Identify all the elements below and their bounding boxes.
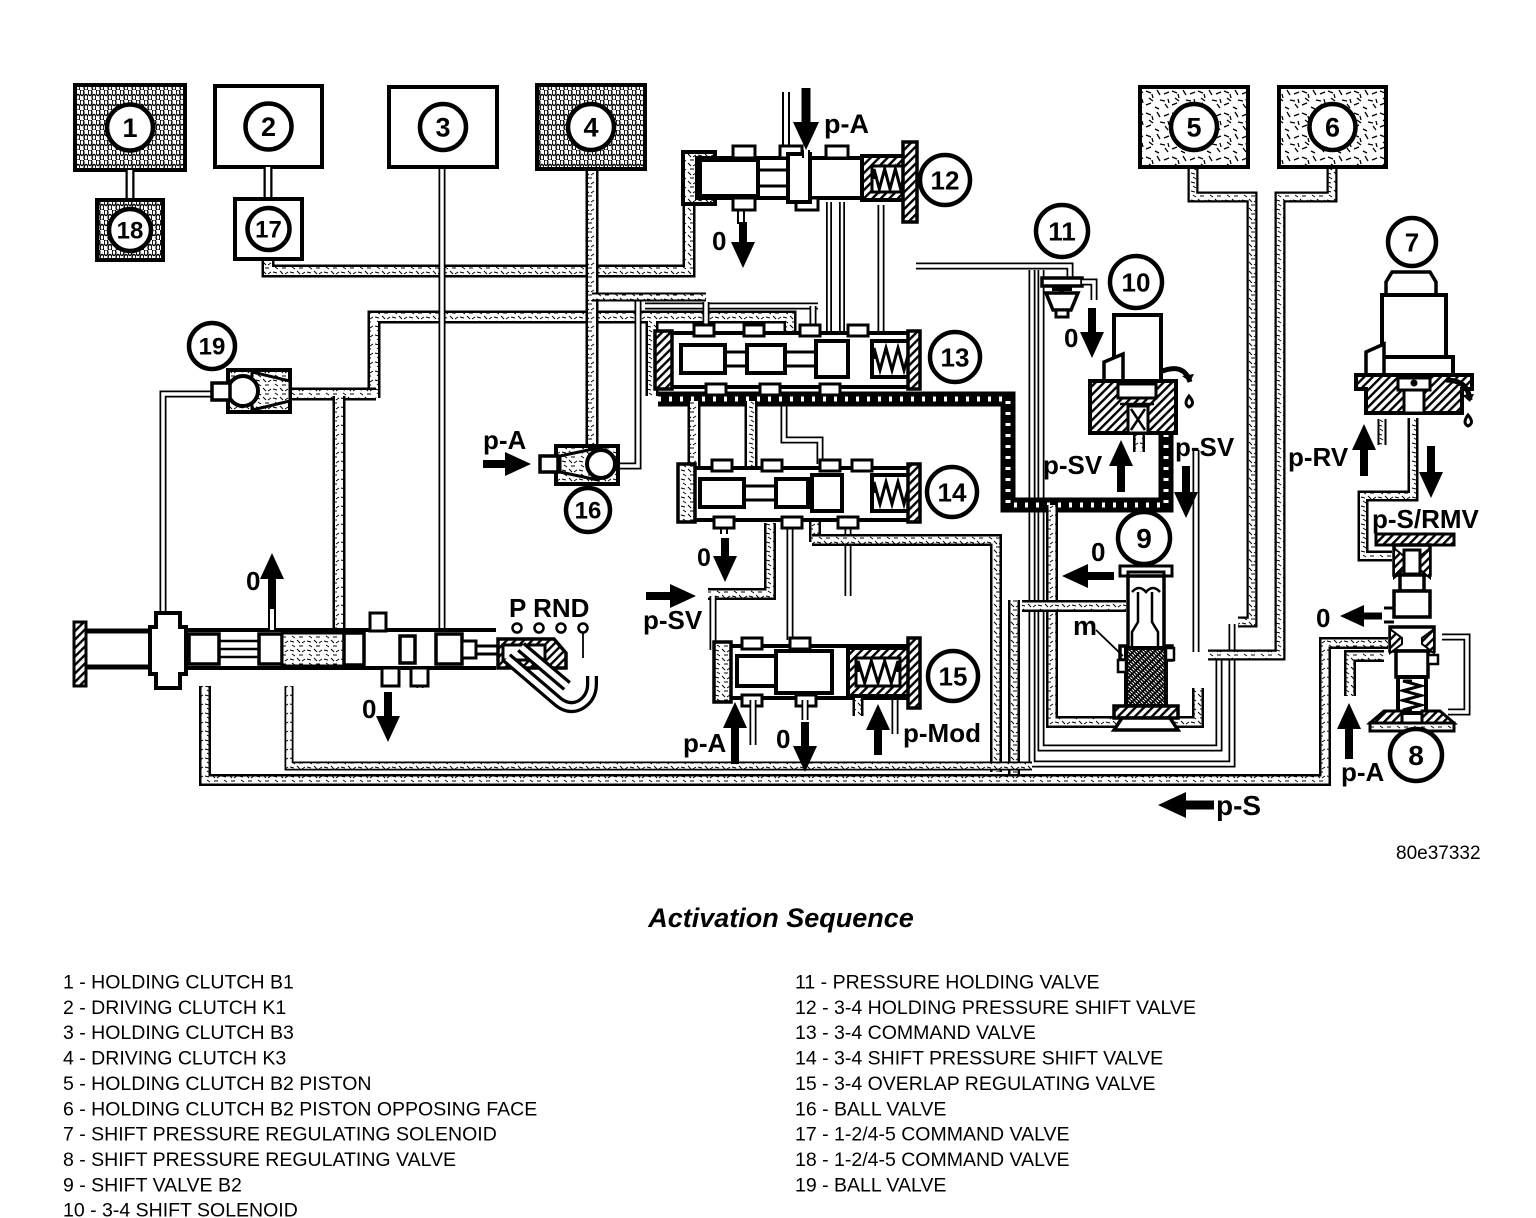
svg-text:8 - SHIFT PRESSURE REGULATING: 8 - SHIFT PRESSURE REGULATING VALVE: [63, 1149, 456, 1171]
svg-text:13 - 3-4 COMMAND VALVE: 13 - 3-4 COMMAND VALVE: [795, 1022, 1036, 1044]
svg-text:6 - HOLDING CLUTCH B2 PISTON O: 6 - HOLDING CLUTCH B2 PISTON OPPOSING FA…: [63, 1098, 537, 1120]
svg-text:3: 3: [435, 113, 450, 143]
svg-text:m: m: [1073, 611, 1097, 641]
svg-text:10: 10: [1122, 267, 1151, 297]
svg-text:0: 0: [1316, 603, 1330, 633]
svg-text:16 - BALL VALVE: 16 - BALL VALVE: [795, 1098, 946, 1120]
svg-text:p-SV: p-SV: [1175, 432, 1235, 462]
svg-text:p-SV: p-SV: [643, 605, 703, 635]
svg-text:9: 9: [1136, 523, 1152, 554]
svg-text:15: 15: [939, 661, 968, 691]
svg-text:3 - HOLDING CLUTCH B3: 3 - HOLDING CLUTCH B3: [63, 1022, 294, 1044]
svg-text:0: 0: [1064, 323, 1078, 353]
svg-text:12: 12: [931, 165, 960, 195]
svg-text:p-S/RMV: p-S/RMV: [1372, 504, 1480, 534]
svg-text:18 - 1-2/4-5 COMMAND VALVE: 18 - 1-2/4-5 COMMAND VALVE: [795, 1149, 1070, 1171]
svg-text:0: 0: [712, 226, 726, 256]
svg-text:0: 0: [246, 566, 260, 596]
svg-text:p-SV: p-SV: [1043, 450, 1103, 480]
svg-text:p-S: p-S: [1216, 790, 1261, 821]
svg-text:16: 16: [575, 498, 602, 525]
svg-text:p-A: p-A: [1341, 757, 1385, 787]
svg-text:4 - DRIVING CLUTCH K3: 4 - DRIVING CLUTCH K3: [63, 1048, 286, 1070]
svg-text:17 - 1-2/4-5 COMMAND VALVE: 17 - 1-2/4-5 COMMAND VALVE: [795, 1124, 1070, 1146]
svg-text:10 - 3-4 SHIFT SOLENOID: 10 - 3-4 SHIFT SOLENOID: [63, 1200, 298, 1218]
svg-text:13: 13: [941, 342, 970, 372]
svg-text:4: 4: [583, 113, 598, 143]
svg-text:6: 6: [1325, 113, 1340, 143]
svg-text:2 - DRIVING CLUTCH K1: 2 - DRIVING CLUTCH K1: [63, 997, 286, 1019]
svg-text:2: 2: [261, 112, 276, 142]
svg-text:11: 11: [1048, 216, 1076, 246]
svg-text:11 - PRESSURE HOLDING VALVE: 11 - PRESSURE HOLDING VALVE: [795, 972, 1100, 994]
svg-text:p-A: p-A: [683, 728, 727, 758]
svg-text:5 - HOLDING CLUTCH B2 PISTON: 5 - HOLDING CLUTCH B2 PISTON: [63, 1073, 371, 1095]
svg-text:9 - SHIFT VALVE B2: 9 - SHIFT VALVE B2: [63, 1174, 242, 1196]
svg-text:1 - HOLDING CLUTCH B1: 1 - HOLDING CLUTCH B1: [63, 972, 294, 994]
svg-text:1: 1: [122, 113, 137, 143]
svg-text:19 - BALL VALVE: 19 - BALL VALVE: [795, 1174, 946, 1196]
svg-text:p-A: p-A: [824, 109, 869, 139]
svg-text:p-RV: p-RV: [1288, 442, 1349, 472]
svg-text:5: 5: [1186, 113, 1201, 143]
svg-text:17: 17: [255, 217, 282, 244]
svg-text:7: 7: [1405, 227, 1419, 257]
svg-text:0: 0: [776, 724, 790, 754]
svg-text:p-A: p-A: [483, 425, 527, 455]
svg-text:14 - 3-4 SHIFT PRESSURE SHIFT: 14 - 3-4 SHIFT PRESSURE SHIFT VALVE: [795, 1048, 1163, 1070]
svg-text:18: 18: [117, 218, 144, 245]
svg-text:0: 0: [697, 544, 711, 572]
svg-text:8: 8: [1408, 740, 1424, 771]
svg-text:19: 19: [199, 334, 226, 361]
svg-text:14: 14: [938, 477, 967, 507]
svg-text:p-Mod: p-Mod: [903, 718, 981, 748]
svg-text:Activation Sequence: Activation Sequence: [647, 903, 914, 933]
svg-text:P RND: P RND: [509, 593, 589, 623]
svg-text:0: 0: [1091, 537, 1105, 567]
svg-text:80e37332: 80e37332: [1396, 843, 1481, 864]
svg-text:7 - SHIFT PRESSURE REGULATING: 7 - SHIFT PRESSURE REGULATING SOLENOID: [63, 1124, 497, 1146]
svg-text:0: 0: [362, 694, 376, 724]
svg-text:15 - 3-4 OVERLAP REGULATING VA: 15 - 3-4 OVERLAP REGULATING VALVE: [795, 1073, 1156, 1095]
svg-text:12 - 3-4 HOLDING PRESSURE SHIF: 12 - 3-4 HOLDING PRESSURE SHIFT VALVE: [795, 997, 1196, 1019]
